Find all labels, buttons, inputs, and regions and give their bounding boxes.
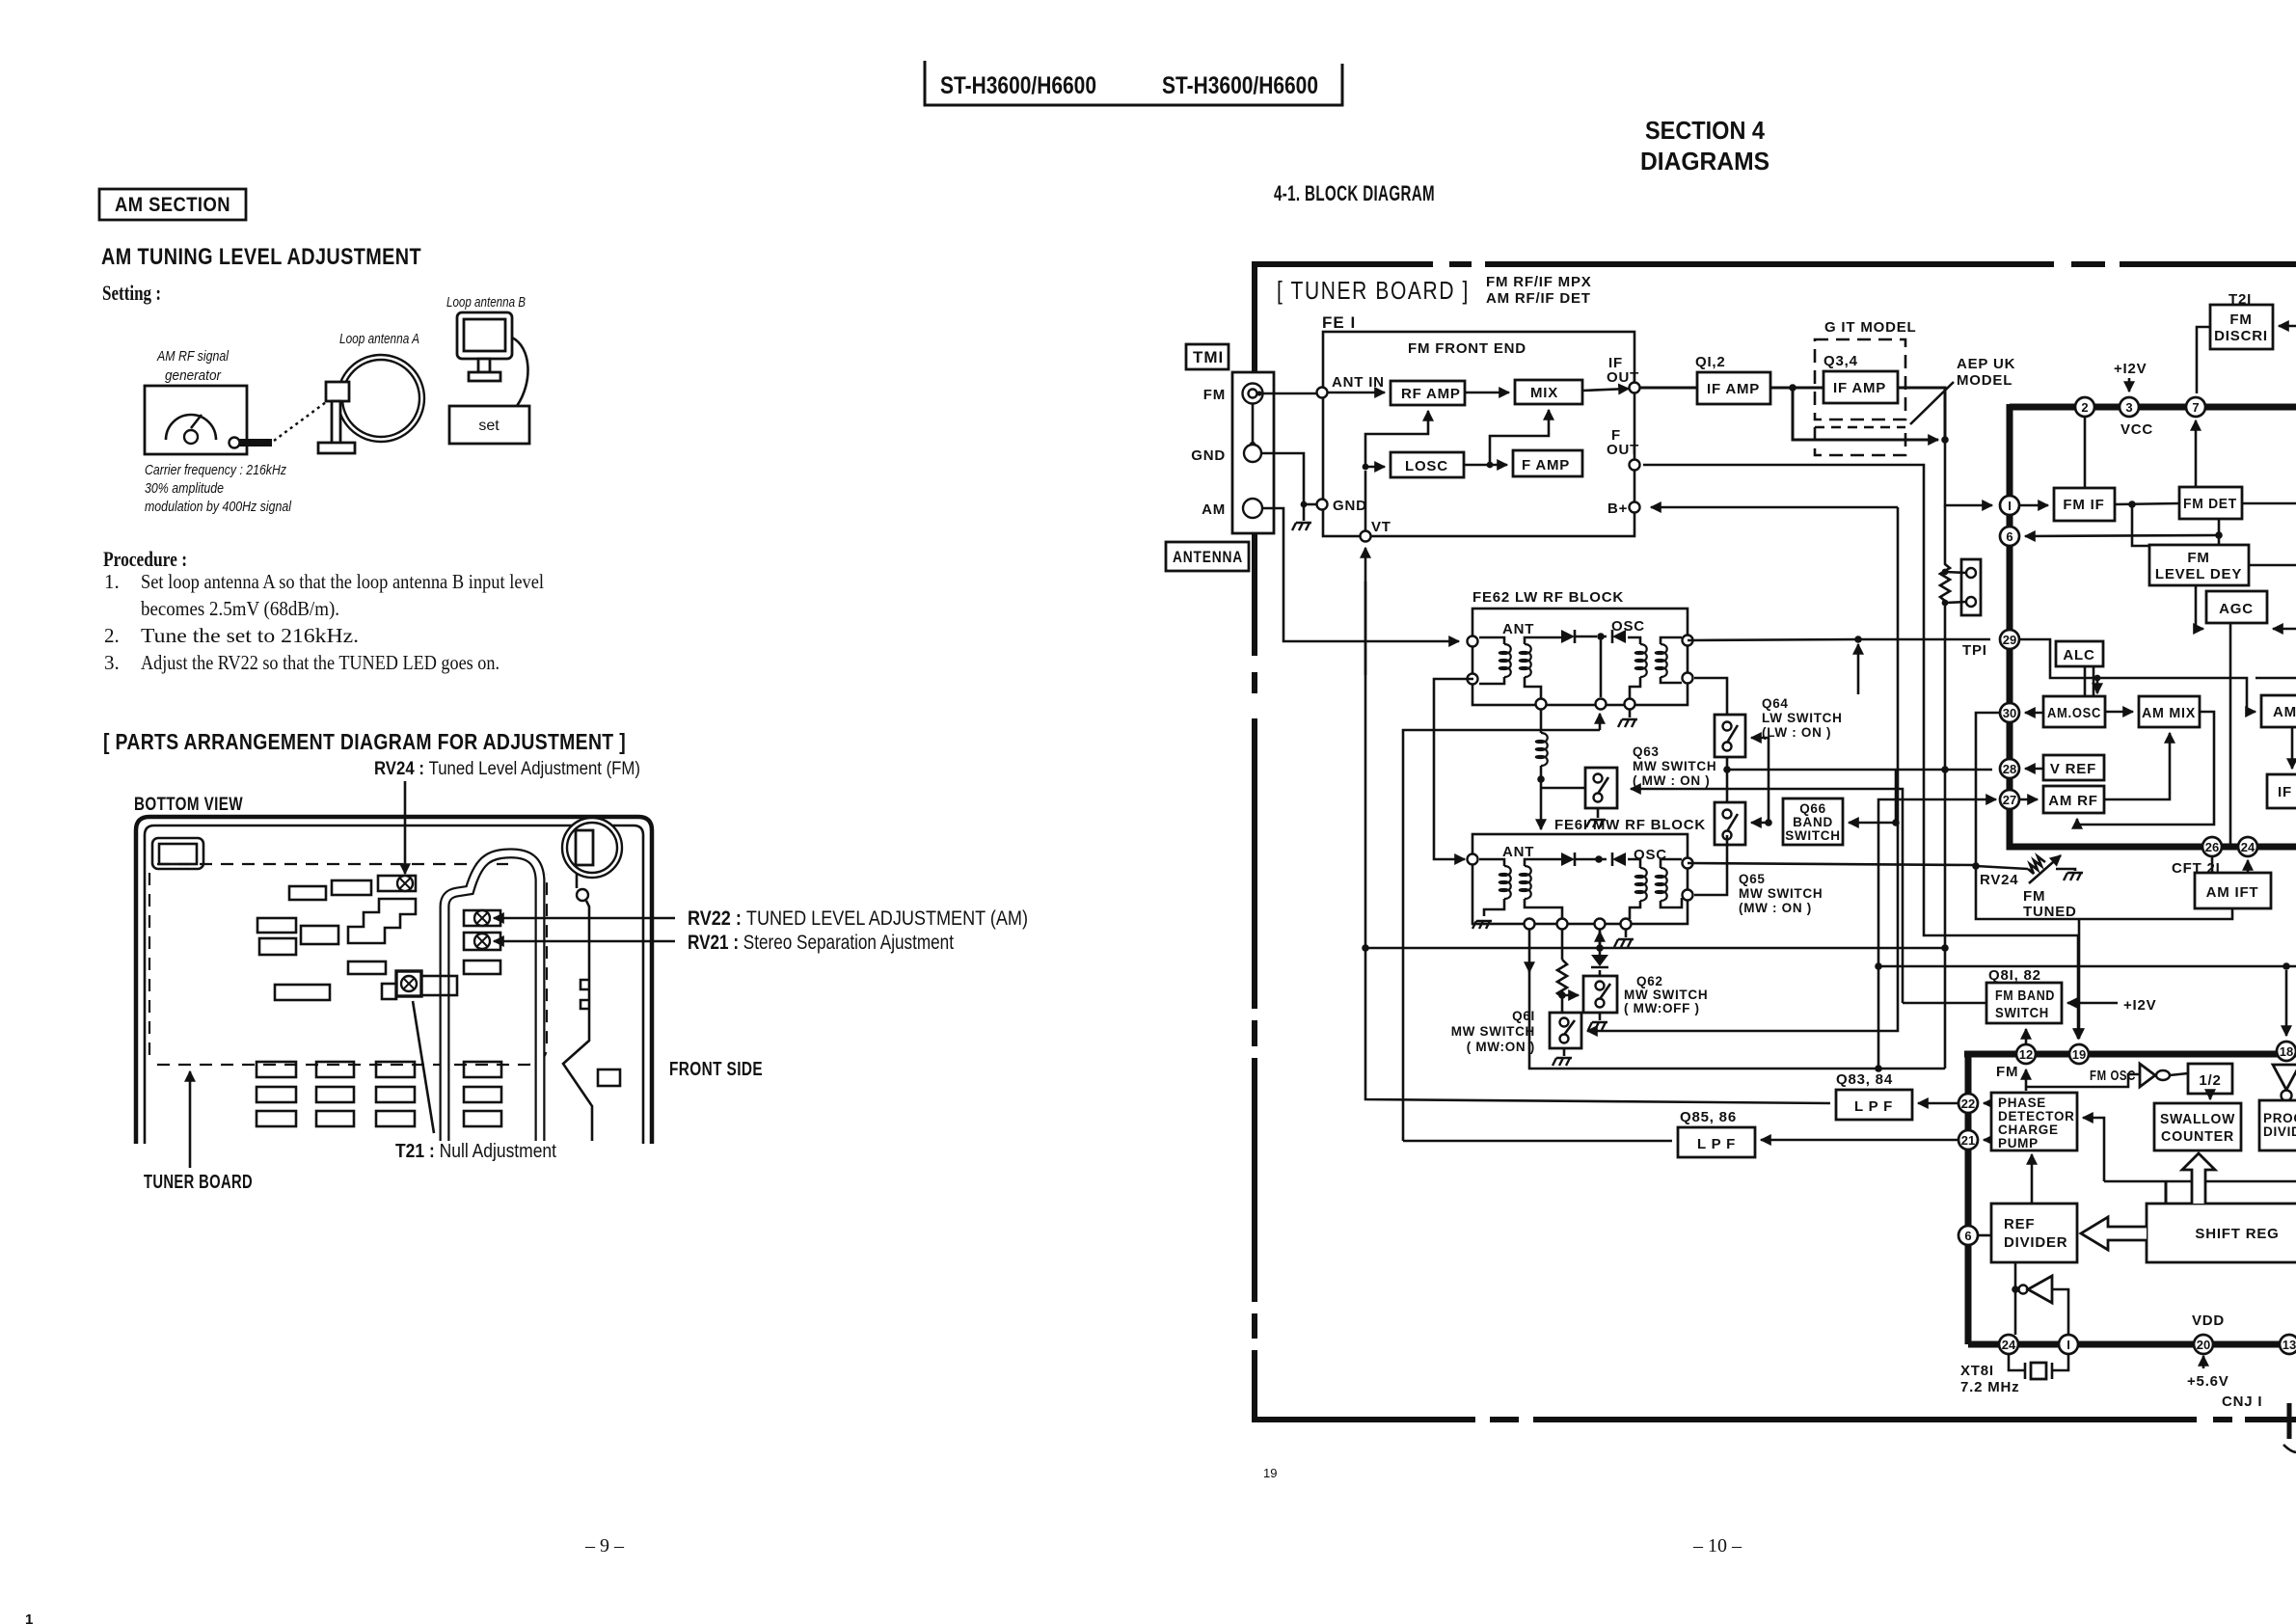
svg-text:SWITCH: SWITCH bbox=[1995, 1005, 2049, 1021]
svg-text:GND: GND bbox=[1333, 498, 1367, 514]
svg-text:VCC: VCC bbox=[2120, 421, 2153, 438]
svg-text:Loop antenna B: Loop antenna B bbox=[446, 294, 526, 311]
svg-text:1/2: 1/2 bbox=[2199, 1072, 2221, 1089]
svg-text:ANTENNA: ANTENNA bbox=[1173, 548, 1243, 566]
svg-text:ANT: ANT bbox=[1502, 621, 1534, 637]
svg-text:24: 24 bbox=[2241, 840, 2255, 854]
svg-text:OUT: OUT bbox=[1607, 442, 1639, 458]
svg-text:SHIFT REG: SHIFT REG bbox=[2195, 1226, 2279, 1242]
svg-text:FM RF/IF MPX: FM RF/IF MPX bbox=[1486, 274, 1592, 290]
svg-text:PUMP: PUMP bbox=[1998, 1136, 2039, 1150]
svg-text:FE I: FE I bbox=[1322, 313, 1356, 332]
svg-text:TMI: TMI bbox=[1193, 348, 1224, 366]
svg-text:FM: FM bbox=[1996, 1064, 2018, 1080]
svg-text:SECTION 4: SECTION 4 bbox=[1645, 116, 1765, 145]
svg-text:IF AMP: IF AMP bbox=[1707, 381, 1760, 397]
svg-text:AM RF/IF DET: AM RF/IF DET bbox=[1486, 290, 1591, 307]
svg-text:2.: 2. bbox=[104, 624, 120, 647]
svg-text:Q65: Q65 bbox=[1739, 872, 1766, 886]
svg-text:L P F: L P F bbox=[1854, 1098, 1893, 1115]
svg-text:MW SWITCH: MW SWITCH bbox=[1451, 1024, 1535, 1039]
svg-text:F AMP: F AMP bbox=[1522, 457, 1570, 474]
svg-text:TUNER BOARD: TUNER BOARD bbox=[144, 1172, 253, 1193]
svg-text:VT: VT bbox=[1371, 519, 1391, 535]
svg-text:12: 12 bbox=[2019, 1047, 2033, 1062]
svg-text:CNJ I: CNJ I bbox=[2222, 1394, 2262, 1410]
svg-text:– 9 –: – 9 – bbox=[584, 1535, 625, 1556]
svg-text:QI,2: QI,2 bbox=[1695, 354, 1726, 370]
svg-text:29: 29 bbox=[2003, 633, 2016, 647]
svg-text:SWITCH: SWITCH bbox=[1785, 828, 1840, 843]
svg-text:BAND: BAND bbox=[1793, 815, 1833, 829]
svg-text:DISCRI: DISCRI bbox=[2214, 328, 2268, 344]
svg-text:Tune the set to 216kHz.: Tune the set to 216kHz. bbox=[141, 624, 359, 647]
svg-text:( MW:OFF ): ( MW:OFF ) bbox=[1624, 1001, 1700, 1015]
svg-text:6: 6 bbox=[1964, 1229, 1971, 1243]
svg-text:MW SWITCH: MW SWITCH bbox=[1624, 988, 1708, 1002]
svg-text:PROG: PROG bbox=[2263, 1111, 2296, 1125]
svg-text:V REF: V REF bbox=[2050, 761, 2096, 777]
svg-text:Loop antenna A: Loop antenna A bbox=[339, 331, 419, 347]
svg-text:19: 19 bbox=[1263, 1466, 1277, 1480]
svg-text:FRONT SIDE: FRONT SIDE bbox=[669, 1059, 763, 1080]
svg-text:Q62: Q62 bbox=[1636, 974, 1663, 988]
svg-text:Q66: Q66 bbox=[1799, 801, 1826, 816]
svg-text:DIVIDER: DIVIDER bbox=[2004, 1234, 2067, 1251]
svg-text:FM: FM bbox=[1203, 387, 1226, 403]
svg-text:LOSC: LOSC bbox=[1405, 458, 1448, 474]
svg-text:GND: GND bbox=[1191, 447, 1226, 464]
svg-text:1: 1 bbox=[25, 1611, 33, 1624]
svg-text:RV22 : TUNED LEVEL ADJUSTMEN: RV22 : TUNED LEVEL ADJUSTMENT (AM) bbox=[688, 907, 1028, 930]
svg-text:IF: IF bbox=[2278, 784, 2292, 800]
svg-text:IF AMP: IF AMP bbox=[1833, 380, 1886, 396]
svg-text:FM: FM bbox=[2023, 888, 2045, 905]
svg-text:Set loop antenna A so tha: Set loop antenna A so that the loop ante… bbox=[141, 570, 544, 593]
svg-text:21: 21 bbox=[1961, 1133, 1975, 1148]
svg-text:TUNED: TUNED bbox=[2023, 904, 2077, 920]
svg-text:– 10 –: – 10 – bbox=[1692, 1535, 1742, 1556]
svg-text:Carrier frequency : 216kHz: Carrier frequency : 216kHz bbox=[145, 462, 286, 478]
svg-text:TPI: TPI bbox=[1962, 642, 1987, 659]
svg-text:OSC: OSC bbox=[1611, 618, 1645, 635]
svg-text:RV24 : Tuned Level Adjustmen: RV24 : Tuned Level Adjustment (FM) bbox=[374, 759, 640, 779]
svg-text:Q63: Q63 bbox=[1633, 744, 1660, 759]
svg-text:I: I bbox=[2066, 1338, 2070, 1352]
svg-text:becomes 2.5mV (68dB/m).: becomes 2.5mV (68dB/m). bbox=[141, 597, 339, 620]
svg-text:MW SWITCH: MW SWITCH bbox=[1739, 886, 1823, 901]
svg-text:MODEL: MODEL bbox=[1957, 372, 2012, 389]
svg-text:set: set bbox=[478, 418, 500, 434]
svg-text:B+: B+ bbox=[1607, 501, 1628, 517]
svg-text:L P F: L P F bbox=[1697, 1136, 1736, 1152]
svg-text:Q3,4: Q3,4 bbox=[1823, 353, 1858, 369]
svg-text:LW SWITCH: LW SWITCH bbox=[1762, 711, 1843, 725]
svg-text:FM: FM bbox=[2187, 550, 2209, 566]
svg-text:DIAGRAMS: DIAGRAMS bbox=[1640, 147, 1769, 176]
svg-text:3: 3 bbox=[2125, 400, 2132, 415]
svg-text:OSC: OSC bbox=[1634, 847, 1667, 863]
svg-text:24: 24 bbox=[2002, 1338, 2016, 1352]
svg-text:3.: 3. bbox=[104, 651, 120, 674]
svg-text:7.2 MHz: 7.2 MHz bbox=[1960, 1379, 2019, 1395]
svg-text:MW SWITCH: MW SWITCH bbox=[1633, 759, 1716, 773]
svg-text:2: 2 bbox=[2081, 400, 2088, 415]
svg-text:FM FRONT END: FM FRONT END bbox=[1408, 340, 1526, 357]
svg-text:18: 18 bbox=[2280, 1044, 2293, 1059]
svg-text:AM RF: AM RF bbox=[2048, 793, 2098, 809]
svg-text:DIVID: DIVID bbox=[2263, 1124, 2296, 1139]
svg-text:FM BAND: FM BAND bbox=[1995, 988, 2055, 1004]
svg-text:AM TUNING LEVEL ADJUSTMENT: AM TUNING LEVEL ADJUSTMENT bbox=[101, 244, 421, 270]
svg-text:7: 7 bbox=[2192, 400, 2199, 415]
svg-text:G IT MODEL: G IT MODEL bbox=[1824, 319, 1917, 336]
svg-text:FM OSC: FM OSC bbox=[2090, 1068, 2136, 1084]
svg-text:( MW:ON ): ( MW:ON ) bbox=[1467, 1040, 1535, 1054]
svg-text:30% amplitude: 30% amplitude bbox=[145, 480, 224, 497]
svg-text:REF: REF bbox=[2004, 1216, 2035, 1232]
svg-text:BOTTOM VIEW: BOTTOM VIEW bbox=[134, 795, 243, 815]
svg-text:20: 20 bbox=[2197, 1338, 2210, 1352]
svg-text:4-1. BLOCK DIAGRAM: 4-1. BLOCK DIAGRAM bbox=[1274, 181, 1435, 205]
svg-text:T21 : Null Adjustment: T21 : Null Adjustment bbox=[395, 1141, 556, 1162]
svg-text:19: 19 bbox=[2072, 1047, 2086, 1062]
svg-text:+I2V: +I2V bbox=[2114, 361, 2147, 377]
svg-text:26: 26 bbox=[2205, 840, 2219, 854]
svg-text:Procedure :: Procedure : bbox=[103, 547, 187, 571]
svg-text:AM.OSC: AM.OSC bbox=[2047, 705, 2101, 721]
svg-text:1.: 1. bbox=[104, 570, 120, 593]
svg-text:(MW : ON ): (MW : ON ) bbox=[1739, 901, 1812, 915]
svg-text:+5.6V: +5.6V bbox=[2187, 1373, 2229, 1390]
svg-text:( MW : ON ): ( MW : ON ) bbox=[1633, 773, 1710, 788]
svg-text:modulation by 400Hz signal: modulation by 400Hz signal bbox=[145, 499, 292, 515]
svg-text:Q6I: Q6I bbox=[1512, 1009, 1535, 1023]
svg-text:MIX: MIX bbox=[1530, 385, 1558, 401]
svg-text:FM IF: FM IF bbox=[2063, 497, 2104, 513]
svg-text:AM MIX: AM MIX bbox=[2142, 705, 2196, 721]
svg-text:FM: FM bbox=[2229, 311, 2252, 328]
svg-text:Q64: Q64 bbox=[1762, 696, 1789, 711]
svg-text:FE62 LW RF BLOCK: FE62 LW RF BLOCK bbox=[1472, 589, 1624, 606]
svg-text:generator: generator bbox=[165, 367, 222, 384]
svg-text:Q83, 84: Q83, 84 bbox=[1836, 1071, 1893, 1088]
svg-text:SWALLOW: SWALLOW bbox=[2160, 1111, 2235, 1127]
svg-text:28: 28 bbox=[2003, 762, 2016, 776]
svg-text:XT8I: XT8I bbox=[1960, 1363, 1994, 1379]
svg-text:CHARGE: CHARGE bbox=[1998, 1123, 2059, 1137]
svg-text:AM SECTION: AM SECTION bbox=[115, 194, 230, 216]
svg-text:[ TUNER BOARD ]: [ TUNER BOARD ] bbox=[1277, 276, 1470, 305]
svg-text:AM IFT: AM IFT bbox=[2206, 884, 2259, 901]
svg-text:[ PARTS ARRANGEMENT DIAGRAM: [ PARTS ARRANGEMENT DIAGRAM FOR ADJUSTME… bbox=[103, 729, 626, 754]
svg-text:13: 13 bbox=[2282, 1338, 2296, 1352]
svg-text:ST-H3600/H6600: ST-H3600/H6600 bbox=[940, 72, 1096, 99]
svg-text:RF AMP: RF AMP bbox=[1401, 386, 1461, 402]
svg-text:Q8I, 82: Q8I, 82 bbox=[1988, 967, 2041, 984]
svg-text:AGC: AGC bbox=[2219, 601, 2254, 617]
svg-text:I: I bbox=[2008, 499, 2012, 513]
svg-text:6: 6 bbox=[2006, 529, 2012, 544]
svg-text:ALC: ALC bbox=[2063, 647, 2094, 663]
svg-text:LEVEL DEY: LEVEL DEY bbox=[2155, 566, 2242, 582]
svg-text:RV24: RV24 bbox=[1980, 872, 2018, 888]
svg-text:FM DET: FM DET bbox=[2183, 496, 2237, 512]
svg-text:COUNTER: COUNTER bbox=[2161, 1128, 2234, 1145]
svg-text:VDD: VDD bbox=[2192, 1313, 2225, 1329]
svg-text:Adjust the RV22 so that t: Adjust the RV22 so that the TUNED LED go… bbox=[141, 651, 500, 674]
svg-text:+I2V: +I2V bbox=[2123, 997, 2156, 1014]
svg-text:AM RF signal: AM RF signal bbox=[156, 348, 229, 365]
svg-text:27: 27 bbox=[2003, 793, 2016, 807]
svg-text:FE6I MW RF BLOCK: FE6I MW RF BLOCK bbox=[1554, 817, 1706, 833]
svg-text:AM: AM bbox=[2273, 704, 2296, 720]
svg-text:ANT: ANT bbox=[1502, 844, 1534, 860]
svg-text:22: 22 bbox=[1961, 1096, 1975, 1111]
svg-text:(LW : ON ): (LW : ON ) bbox=[1762, 725, 1831, 740]
svg-text:DETECTOR: DETECTOR bbox=[1998, 1109, 2075, 1123]
svg-text:Setting :: Setting : bbox=[102, 281, 161, 305]
svg-text:AEP UK: AEP UK bbox=[1957, 356, 2015, 372]
svg-text:ANT IN: ANT IN bbox=[1332, 374, 1385, 391]
svg-text:Q85, 86: Q85, 86 bbox=[1680, 1109, 1737, 1125]
svg-text:PHASE: PHASE bbox=[1998, 1096, 2046, 1110]
svg-text:30: 30 bbox=[2003, 706, 2016, 720]
svg-text:RV21 : Stereo Separation Aju: RV21 : Stereo Separation Ajustment bbox=[688, 932, 954, 954]
svg-text:ST-H3600/H6600: ST-H3600/H6600 bbox=[1162, 72, 1318, 99]
svg-text:AM: AM bbox=[1202, 501, 1226, 518]
